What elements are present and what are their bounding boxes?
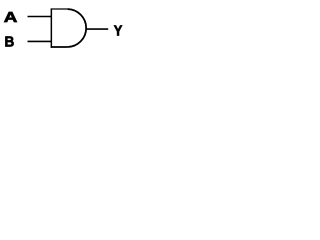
AND gate U1 left edge	[50, 8, 52, 47]
AND gate U1 bottom edge	[51, 46, 68, 48]
AND gate U1 output arc	[68, 9, 87, 47]
svg-text:A: A	[4, 9, 18, 26]
AND gate U1 top edge	[51, 8, 68, 10]
wire B input	[28, 40, 52, 42]
wire A input	[28, 16, 52, 18]
svg-text:Y: Y	[114, 23, 123, 39]
wire Y output	[86, 28, 108, 30]
svg-text:B: B	[5, 33, 15, 50]
